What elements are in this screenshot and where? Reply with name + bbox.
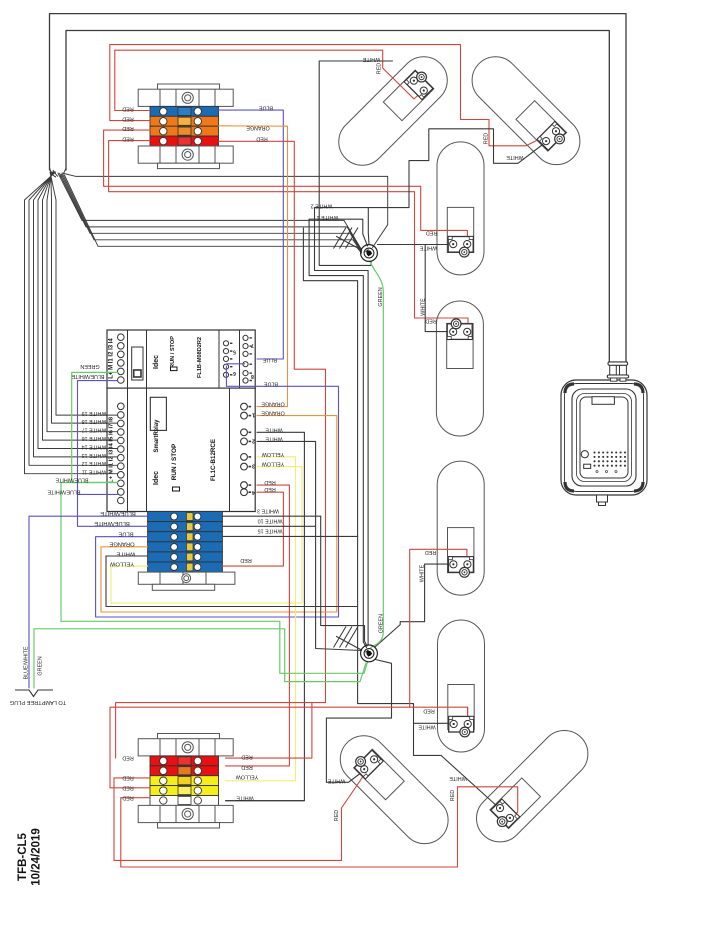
module FL1B input terminals L+ M I1-I4	[118, 334, 125, 341]
wire red PLC Q4b to blue strip	[222, 492, 283, 566]
svg-text:FL1B-M08D2R2: FL1B-M08D2R2	[197, 337, 203, 378]
wire white lamp L2 return	[315, 129, 549, 208]
svg-text:5: 5	[233, 349, 236, 355]
terminal block TB1 top end bracket	[138, 89, 233, 106]
svg-text:Idec: Idec	[153, 355, 160, 369]
svg-text:RED: RED	[122, 794, 133, 800]
PLC smart relay FL1C-B12RCE body	[107, 388, 255, 511]
wire harness white lead to PLC input 6	[34, 172, 118, 457]
wire harness white lead to PLC input 7	[29, 172, 118, 465]
module FL1C relay output contacts Q1-Q4	[241, 403, 248, 410]
wire orange PLC Q1b big loop	[101, 416, 337, 612]
terminal block TB2 top mounting tabs	[158, 734, 220, 739]
wire orange TB1 row2 to PLC Q1	[219, 126, 288, 407]
svg-text:WHITE 2: WHITE 2	[311, 202, 333, 208]
wire white branch to lamp L6	[414, 722, 453, 724]
svg-text:WHITE 19: WHITE 19	[82, 410, 107, 416]
svg-text:BLUE: BLUE	[264, 380, 278, 386]
wire white lamp L5 to J2	[375, 564, 453, 647]
svg-text:WHITE: WHITE	[236, 795, 254, 801]
svg-text:BLUE/WHITE: BLUE/WHITE	[47, 488, 80, 494]
DIN terminal strip (blue) rows	[148, 512, 223, 522]
svg-text:RED: RED	[483, 133, 489, 144]
svg-text:GREEN: GREEN	[37, 656, 43, 675]
svg-text:RED: RED	[376, 63, 382, 74]
wire red alpha bus	[116, 703, 326, 759]
wire white net C corridor	[315, 208, 369, 645]
svg-text:8: 8	[251, 373, 254, 379]
wire red band1 to lamp L7	[114, 761, 374, 860]
svg-text:FL1C-B12RCE: FL1C-B12RCE	[210, 439, 217, 481]
wire white PLC Q2a to TB2	[226, 432, 305, 800]
wire red band2 to lamp L8	[121, 787, 518, 867]
wire black strip row5 loop	[106, 556, 358, 607]
flasher lamp assembly L6 body	[438, 620, 485, 752]
flasher lamp assembly L7 body	[331, 726, 458, 853]
wire red TB2 row1 right	[226, 703, 312, 759]
svg-text:YELLOW: YELLOW	[261, 461, 284, 467]
wire white net WHITE1	[309, 219, 367, 246]
wire power cord outer run	[50, 14, 627, 362]
svg-text:YELLOW: YELLOW	[261, 451, 284, 457]
svg-text:7: 7	[251, 342, 254, 348]
svg-text:RED: RED	[426, 230, 437, 236]
svg-text:WHITE 12: WHITE 12	[82, 460, 107, 466]
flasher lamp assembly L3 body	[437, 142, 484, 275]
svg-text:WHITE: WHITE	[362, 56, 380, 62]
svg-text:RED: RED	[241, 764, 252, 770]
wire harness white lead to J1 b3	[61, 174, 361, 251]
wire red TB2 row3 left drop	[114, 778, 150, 861]
wire bluewhite PLC L+ to strip row2	[78, 381, 148, 527]
wire red PLC Q4a to TB2 row2	[226, 485, 290, 766]
svg-text:WHITE 16: WHITE 16	[82, 435, 107, 441]
lamp L1 socket	[404, 67, 436, 99]
svg-text:L+ M I1 I2 I3 I4 I5 I6 I7 I8: L+ M I1 I2 I3 I4 I5 I6 I7 I8	[109, 416, 115, 483]
svg-text:1: 1	[252, 412, 255, 418]
power supply / transformer body	[561, 380, 647, 495]
wire red lamp L5 feed	[410, 549, 467, 707]
wire J2 spoke to hatch	[337, 637, 362, 651]
wire white TB2 row5	[226, 800, 305, 802]
svg-text:BLUE/WHITE: BLUE/WHITE	[23, 646, 29, 679]
svg-text:RED: RED	[122, 775, 133, 781]
wire red TB1 row1 to lamp L1	[115, 50, 423, 110]
terminal block TB2 bottom end bracket	[138, 805, 233, 822]
flasher lamp assembly L2 body	[462, 47, 589, 174]
svg-text:BLUE/WHITE: BLUE/WHITE	[71, 373, 104, 379]
wire bluewhite lamptree to strip row1	[29, 516, 148, 688]
svg-text:GREEN: GREEN	[378, 614, 384, 633]
lamp L2 socket	[537, 122, 569, 154]
wire white J2 to lamp L7	[326, 660, 391, 783]
wire harness white lead to PLC input 4	[43, 172, 118, 440]
lamp L3 socket	[448, 237, 473, 258]
module FL1C display window	[150, 397, 166, 430]
wire harness white lead to PLC input 1	[50, 172, 118, 415]
wire white net WHITE2 drop to J1	[367, 208, 370, 245]
wire red TB1 row4 to bottom bus	[219, 141, 326, 702]
lamp L6 socket	[449, 716, 474, 737]
svg-text:WHITE: WHITE	[418, 723, 436, 729]
svg-text:YELLOW: YELLOW	[235, 774, 258, 780]
svg-text:RED: RED	[264, 479, 275, 485]
wire white blue strip WHITE15	[222, 535, 357, 537]
module FL1C input terminals L+ M I1-I8	[118, 403, 125, 410]
svg-text:WHITE 10: WHITE 10	[258, 517, 283, 523]
junction node J1	[361, 245, 378, 262]
svg-text:RED: RED	[425, 549, 436, 555]
wire red lamp L6 stub	[467, 707, 469, 723]
PLC expansion module FL1B-M08D2R2 body	[107, 330, 255, 388]
wire white lamp L8 return	[414, 755, 499, 807]
cable sheath end	[50, 168, 67, 177]
wire white PLC Q2b to J2	[257, 441, 362, 650]
svg-text:BLUE: BLUE	[263, 356, 277, 362]
wire harness white lead to PLC input 2	[51, 172, 118, 423]
svg-text:RED: RED	[122, 106, 133, 112]
svg-text:RED: RED	[425, 318, 436, 324]
svg-text:WHITE 13: WHITE 13	[82, 452, 107, 458]
svg-text:WHITE: WHITE	[117, 551, 136, 557]
svg-text:RED: RED	[122, 116, 133, 122]
wire harness white lead to J1 b5	[64, 175, 361, 253]
svg-text:BLUE/WHITE: BLUE/WHITE	[94, 520, 130, 526]
svg-text:RED: RED	[334, 810, 340, 821]
svg-text:WHITE: WHITE	[265, 435, 283, 441]
svg-text:2: 2	[252, 437, 255, 443]
svg-text:BLUE: BLUE	[118, 530, 133, 536]
wire white net 320 corridor	[321, 516, 367, 646]
wire harness white lead to J1 b1	[58, 173, 362, 250]
svg-text:RED: RED	[122, 755, 133, 761]
svg-text:TFB-CL5: TFB-CL5	[17, 832, 29, 881]
svg-text:ORANGE: ORANGE	[261, 401, 285, 407]
svg-text:RED: RED	[423, 708, 434, 714]
flasher lamp assembly L8 body	[467, 721, 598, 852]
wire white lamp L1 return	[319, 61, 392, 265]
cable twist hatch marks at J1	[334, 228, 347, 249]
svg-text:Idec: Idec	[153, 471, 160, 485]
wire green J1 to J2	[370, 261, 384, 648]
terminal block TB2 bottom mounting tabs	[158, 823, 220, 828]
lamp L7 socket	[351, 747, 383, 779]
DIN terminal strip end bracket	[138, 572, 235, 584]
wire red TB1 row3 to lamp L3	[104, 130, 468, 241]
lamp L5 socket	[448, 557, 473, 578]
svg-text:BLUE: BLUE	[259, 104, 273, 110]
svg-text:RUN / STOP: RUN / STOP	[171, 443, 178, 480]
wire blue PLC output to loop	[226, 366, 257, 386]
power supply vent holes and indicator	[581, 451, 588, 458]
svg-text:WHITE: WHITE	[420, 564, 426, 582]
wire J1 spoke to hatch	[337, 237, 362, 251]
svg-text:ORANGE: ORANGE	[246, 125, 270, 131]
wire yellow PLC Q3a to TB2	[226, 457, 296, 781]
flasher lamp assembly L1 body	[329, 47, 457, 175]
wire red TB2 row5 left drop	[121, 798, 150, 867]
wire bluewhite PLC L+ lower tap	[78, 493, 118, 495]
svg-text:RUN / STOP: RUN / STOP	[170, 336, 176, 368]
wire harness white lead to J1 a	[62, 173, 388, 248]
wire blue PLC jumper	[226, 363, 244, 365]
svg-text:RED: RED	[241, 754, 252, 760]
svg-text:WHITE 1: WHITE 1	[317, 214, 339, 220]
svg-text:WHITE 18: WHITE 18	[82, 418, 107, 424]
flasher lamp assembly L5 body	[437, 461, 484, 595]
svg-text:GREEN: GREEN	[80, 363, 99, 369]
svg-text:WHITE: WHITE	[449, 775, 467, 781]
terminal block TB1 bottom mounting tabs	[158, 163, 220, 168]
svg-text:WHITE 14: WHITE 14	[82, 443, 107, 449]
svg-text:RED: RED	[450, 790, 456, 801]
wire harness white lead to J1 b2	[60, 174, 362, 251]
svg-text:SmartRelay: SmartRelay	[154, 419, 160, 453]
module FL1B relay output contacts	[223, 341, 228, 346]
terminal block TB2 terminal rows	[150, 756, 219, 766]
svg-text:WHITE: WHITE	[265, 426, 283, 432]
svg-text:RED: RED	[264, 486, 275, 492]
wire white blue strip WHITE10	[222, 525, 315, 527]
wire red TB2 row4 left	[110, 787, 150, 789]
wire harness white lead to J1 b4	[63, 175, 362, 253]
terminal block TB1 bottom end bracket	[138, 146, 233, 163]
wire harness white lead to PLC input 5	[38, 172, 118, 449]
terminal block TB1 top mounting tabs	[158, 84, 220, 89]
wire white net B corridor	[309, 219, 366, 647]
svg-text:WHITE: WHITE	[421, 298, 427, 316]
svg-text:RED: RED	[122, 784, 133, 790]
flasher lamp assembly L4 body	[436, 301, 483, 436]
svg-text:YELLOW: YELLOW	[109, 561, 134, 567]
wire power cord inner run	[66, 31, 609, 363]
wire blue TB1 row1 to PLC	[219, 110, 284, 359]
cable twist hatch marks at J2	[334, 627, 347, 648]
wire red beta bus	[110, 707, 468, 788]
svg-text:WHITE: WHITE	[506, 154, 524, 160]
svg-text:3: 3	[252, 462, 255, 468]
power supply bottom nub	[597, 495, 608, 502]
svg-text:BLUE/WHITE: BLUE/WHITE	[55, 477, 88, 483]
svg-text:RED: RED	[256, 135, 267, 141]
wire red TB1 row4 to lamp L4	[109, 141, 468, 329]
wire green lamptree run to J2	[34, 629, 366, 688]
svg-text:BLUE/WHITE: BLUE/WHITE	[100, 510, 136, 516]
wire white J1 to lamp L3	[378, 244, 454, 246]
junction node J2	[361, 645, 378, 662]
lamptree plug break symbol	[15, 690, 53, 697]
svg-text:WHITE 15: WHITE 15	[258, 527, 283, 533]
wire harness white lead to PLC input 8	[25, 172, 118, 474]
svg-text:GREEN: GREEN	[378, 287, 384, 306]
svg-text:4: 4	[252, 489, 255, 495]
module FL1B DIN clip	[132, 347, 143, 380]
svg-text:WHITE 17: WHITE 17	[82, 427, 107, 433]
terminal block TB2 top end bracket	[138, 739, 233, 756]
wire harness white lead to PLC input 3	[47, 172, 118, 432]
wire yellow PLC Q3b big loop	[111, 467, 302, 603]
wire red TB1 row2 to lamp L2	[110, 45, 557, 146]
lamp L4 socket	[447, 319, 472, 340]
svg-text:RED: RED	[122, 125, 133, 131]
wire white blue strip WHITE3	[222, 515, 320, 517]
wire blue PLC big loop	[96, 386, 339, 617]
power plug	[610, 365, 617, 375]
wire white lamp L4 branch	[425, 245, 453, 332]
wire green PLC M jumper	[72, 372, 118, 482]
svg-text:6: 6	[233, 370, 236, 376]
svg-text:RED: RED	[240, 557, 251, 563]
svg-text:WHITE: WHITE	[419, 244, 437, 250]
svg-text:WHITE: WHITE	[327, 777, 345, 783]
wire white net A corridor	[303, 228, 413, 755]
svg-text:10/24/2019: 10/24/2019	[31, 828, 43, 886]
svg-text:RED: RED	[122, 136, 133, 142]
svg-text:ORANGE: ORANGE	[261, 410, 285, 416]
terminal block TB1 terminal rows	[150, 106, 219, 116]
lamp L8 socket	[487, 799, 519, 831]
svg-text:WHITE 3: WHITE 3	[257, 507, 279, 513]
svg-text:TO LAMPTREE PLUG: TO LAMPTREE PLUG	[10, 699, 66, 705]
svg-text:ORANGE: ORANGE	[109, 540, 134, 546]
svg-text:WHITE 11: WHITE 11	[82, 469, 106, 475]
wire green main run to J2	[61, 483, 368, 674]
